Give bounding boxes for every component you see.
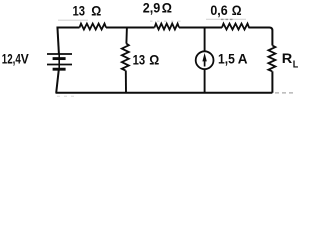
battery V1 long plate top [47, 53, 72, 55]
wire left vertical top [57, 27, 59, 54]
svg-text:1,5: 1,5 [218, 51, 235, 67]
battery V1 long plate lower [47, 64, 72, 66]
wire top rail segment R2 to node B [179, 27, 222, 29]
wire current source branch top [204, 28, 206, 52]
resistor R3 0.6ohm horizontal [222, 24, 249, 30]
current source I1 circle [196, 51, 214, 69]
svg-text:Ω: Ω [149, 52, 159, 68]
scan artifact dashes right of bottom rail corner [275, 92, 296, 94]
svg-text:Ω: Ω [232, 2, 242, 18]
svg-text:A: A [238, 51, 248, 67]
svg-text:V: V [21, 51, 30, 67]
wire left vertical bottom [56, 70, 59, 93]
scan artifact dots under 2,9 ohm label [150, 20, 181, 22]
svg-text:R: R [282, 50, 293, 66]
resistor R2 2.9ohm horizontal [155, 24, 180, 30]
current source I1 arrow [202, 53, 206, 62]
battery V1 short thick plate upper [53, 57, 66, 60]
wire bottom rail [56, 92, 273, 94]
wire top rail segment R1 to node A [106, 27, 155, 29]
resistor RL vertical [268, 46, 275, 72]
resistor R1 13ohm horizontal [80, 24, 107, 30]
scan artifact faint marks below bottom-left rail [57, 95, 74, 97]
resistor R4 13ohm vertical [122, 44, 129, 71]
svg-text:L: L [293, 60, 299, 71]
svg-text:13: 13 [73, 3, 86, 19]
wire right vertical bottom [271, 71, 273, 93]
scan artifact dashes under 0,6 ohm label [206, 18, 246, 20]
battery V1 short thick plate bottom [53, 68, 66, 71]
svg-text:12,4: 12,4 [2, 51, 21, 67]
battery V1 center link [58, 54, 60, 69]
svg-text:Ω: Ω [162, 0, 172, 16]
scan artifact smudge under 13 ohm label [58, 19, 88, 21]
svg-text:13: 13 [133, 52, 146, 68]
wire top rail right segment with rounded corner [249, 28, 273, 46]
svg-text:Ω: Ω [91, 3, 101, 19]
wire current source branch bottom [204, 69, 206, 93]
wire middle branch bottom [125, 71, 127, 93]
svg-text:0,6: 0,6 [210, 2, 227, 18]
svg-text:2,9: 2,9 [143, 0, 161, 16]
wire top rail left segment [57, 27, 79, 29]
wire middle branch top [125, 28, 128, 44]
